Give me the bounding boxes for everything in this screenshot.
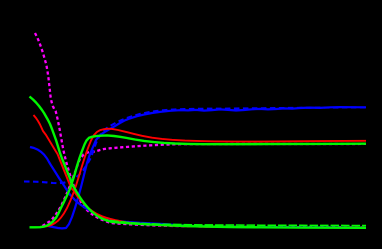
blue solid curve - rising to noisy top plateau — [48, 107, 366, 228]
blue dashed curve - flat start then rising to top plateau — [24, 107, 366, 183]
blue solid curve - descending to bottom plateau — [30, 147, 366, 228]
red solid curve - descending to bottom plateau — [34, 115, 367, 228]
magenta dashed curve - rising to middle plateau — [43, 144, 367, 226]
red solid curve - rising with overshoot to middle plateau — [40, 129, 366, 227]
green dashed curve - bottom plateau approximation — [100, 218, 366, 226]
green solid curve - rising with overshoot to middle plateau — [30, 135, 367, 227]
magenta dashed curve - descending from top left to bottom plateau — [35, 33, 366, 227]
green solid curve - descending to bottom plateau — [30, 97, 367, 228]
